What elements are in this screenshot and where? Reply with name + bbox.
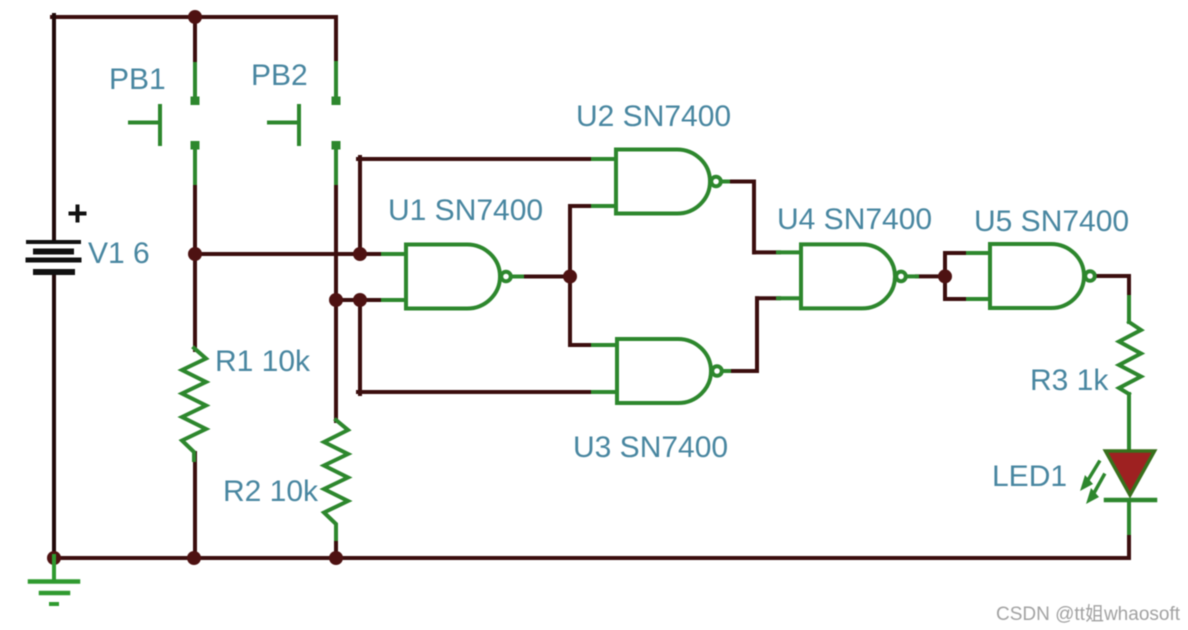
wire PB2 top lead — [334, 17, 338, 64]
resistor R1 — [182, 348, 206, 460]
wire dropper to bottom feedback — [358, 300, 362, 394]
wire battery bottom lead — [52, 274, 56, 559]
junction top rail / PB1 — [188, 10, 202, 24]
wire top feedback to U2 — [358, 157, 593, 161]
wire U1 output — [521, 275, 570, 279]
resistor R2 — [324, 420, 348, 539]
op-amp U5 nand gate — [968, 244, 1095, 308]
svg-text:V1 6: V1 6 — [88, 237, 150, 270]
wire node A to U1 input A — [195, 252, 384, 256]
svg-text:R2 10k: R2 10k — [223, 475, 319, 508]
ground — [30, 556, 78, 604]
svg-text:LED1: LED1 — [992, 460, 1067, 493]
wire to U3 input A — [570, 343, 593, 347]
wire battery top lead — [52, 15, 56, 241]
wire R1 bottom lead — [193, 453, 197, 559]
wire to U4 input A — [754, 250, 779, 254]
op-amp U1 nand gate — [383, 245, 522, 309]
wire PB2 bottom lead — [334, 182, 338, 300]
wire U2 output — [728, 180, 754, 184]
svg-text:U2 SN7400: U2 SN7400 — [576, 100, 731, 133]
junction R1 bottom — [187, 551, 201, 565]
junction node A riser — [353, 247, 367, 261]
wire to U5 input B — [945, 297, 969, 301]
svg-text:U3 SN7400: U3 SN7400 — [573, 431, 728, 464]
wire riser to top feedback — [358, 157, 362, 254]
wire top rail — [52, 15, 336, 19]
wire U4 output — [917, 274, 945, 278]
LED1 — [1080, 451, 1155, 533]
op-amp U4 nand gate — [778, 244, 917, 308]
svg-text:PB2: PB2 — [251, 59, 308, 92]
junction node A — [188, 247, 202, 261]
wire U5 output — [1098, 274, 1129, 278]
wire U3 output rise — [755, 298, 759, 371]
op-amp U3 nand gate — [593, 339, 729, 403]
wire R2 bottom lead — [334, 538, 338, 559]
wire to U2 input B — [570, 204, 593, 208]
junction U4 output node — [938, 269, 952, 283]
pushbutton PB2 — [269, 63, 341, 183]
wire node B to U1 input B — [336, 298, 384, 302]
wire U2 output drop — [752, 182, 756, 253]
wire bottom rail — [54, 556, 1129, 560]
junction node B dropper — [353, 293, 367, 307]
svg-text:PB1: PB1 — [109, 63, 166, 96]
wire PB1 top lead — [193, 17, 197, 65]
svg-text:R3 1k: R3 1k — [1030, 364, 1109, 397]
op-amp U2 nand gate — [593, 150, 728, 214]
battery V1 — [28, 207, 85, 273]
svg-text:U4 SN7400: U4 SN7400 — [777, 203, 932, 236]
wire PB1 bottom lead to R1 — [193, 182, 197, 350]
wire U4 output branch vertical — [943, 253, 947, 299]
junction U1 output node — [563, 270, 577, 284]
svg-text:R1 10k: R1 10k — [215, 345, 311, 378]
junction node B PB2 — [329, 293, 343, 307]
junction R2 bottom — [329, 551, 343, 565]
svg-text:U1 SN7400: U1 SN7400 — [388, 194, 543, 227]
wire U5 output drop to R3 — [1127, 276, 1131, 299]
svg-text:CSDN @tt姐whaosoft: CSDN @tt姐whaosoft — [996, 603, 1181, 625]
wire U1 output branch vertical — [568, 206, 572, 345]
pushbutton PB1 — [130, 64, 200, 183]
wire bottom feedback to U3 — [358, 390, 593, 394]
wire to U5 input A — [945, 251, 969, 255]
svg-text:U5 SN7400: U5 SN7400 — [974, 205, 1129, 238]
wire U3 output — [728, 369, 757, 373]
wire R2 top lead — [334, 300, 338, 421]
wire to U4 input B — [757, 296, 779, 300]
resistor R3 — [1119, 297, 1141, 450]
wire LED1 bottom lead — [1127, 532, 1131, 558]
junction ground node — [47, 551, 61, 565]
